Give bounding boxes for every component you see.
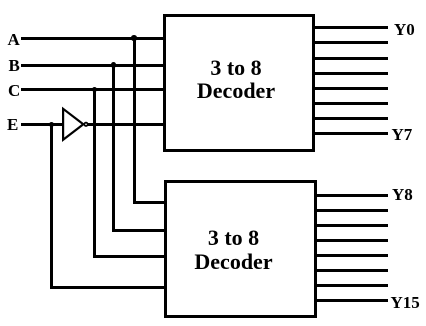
wire E elbow to decoder 2 xyxy=(50,286,166,289)
label U3 value line 2: Decoder xyxy=(157,251,310,273)
wire Y7 output xyxy=(313,132,388,135)
node on A xyxy=(131,35,137,41)
inverter U1 xyxy=(55,100,100,150)
wire A input xyxy=(21,37,166,40)
wire C elbow to decoder 2 xyxy=(93,255,166,258)
wire Y6 output xyxy=(313,117,388,120)
wire Y11 output xyxy=(314,239,388,242)
label Y8 xyxy=(392,185,413,205)
label A xyxy=(8,30,20,50)
wire Y3 output xyxy=(313,72,388,75)
decoder U3 (3 to 8 Decoder, bottom) xyxy=(164,180,317,318)
wire Y4 output xyxy=(313,87,388,90)
label Y0 xyxy=(394,20,415,40)
wire Y0 output xyxy=(313,26,388,29)
node on B xyxy=(111,62,117,68)
wire Y8 output xyxy=(314,194,388,197)
label B xyxy=(9,56,20,76)
wire E (inverter output to decoder 1) xyxy=(88,123,166,126)
wire C vertical tap xyxy=(93,88,96,258)
wire Y5 output xyxy=(313,102,388,105)
wire E vertical tap xyxy=(50,123,53,290)
wire E input (before inverter) xyxy=(21,123,64,126)
label U2 value line 1: 3 to 8 xyxy=(160,57,312,79)
wire Y9 output xyxy=(314,209,388,212)
wire Y15 output xyxy=(314,299,388,302)
label U2 value line 2: Decoder xyxy=(160,80,312,102)
wire C input xyxy=(21,88,166,91)
decoder U2 (3 to 8 Decoder, top) xyxy=(163,14,315,152)
wire A vertical tap xyxy=(133,37,136,205)
label C xyxy=(8,81,20,101)
label Y15 xyxy=(391,293,420,313)
wire B elbow to decoder 2 xyxy=(112,229,166,232)
wire Y13 output xyxy=(314,269,388,272)
wire Y2 output xyxy=(313,57,388,60)
wire Y1 output xyxy=(313,41,388,44)
wire Y14 output xyxy=(314,284,388,287)
node on E xyxy=(49,122,55,128)
node on C xyxy=(92,87,98,93)
wire B input xyxy=(21,64,166,67)
wire Y12 output xyxy=(314,254,388,257)
label Y7 xyxy=(392,125,413,145)
wire A elbow to decoder 2 xyxy=(133,201,166,204)
wire Y10 output xyxy=(314,224,388,227)
label E xyxy=(7,115,18,135)
label U3 value line 1: 3 to 8 xyxy=(157,227,310,249)
wire B vertical tap xyxy=(112,64,115,233)
